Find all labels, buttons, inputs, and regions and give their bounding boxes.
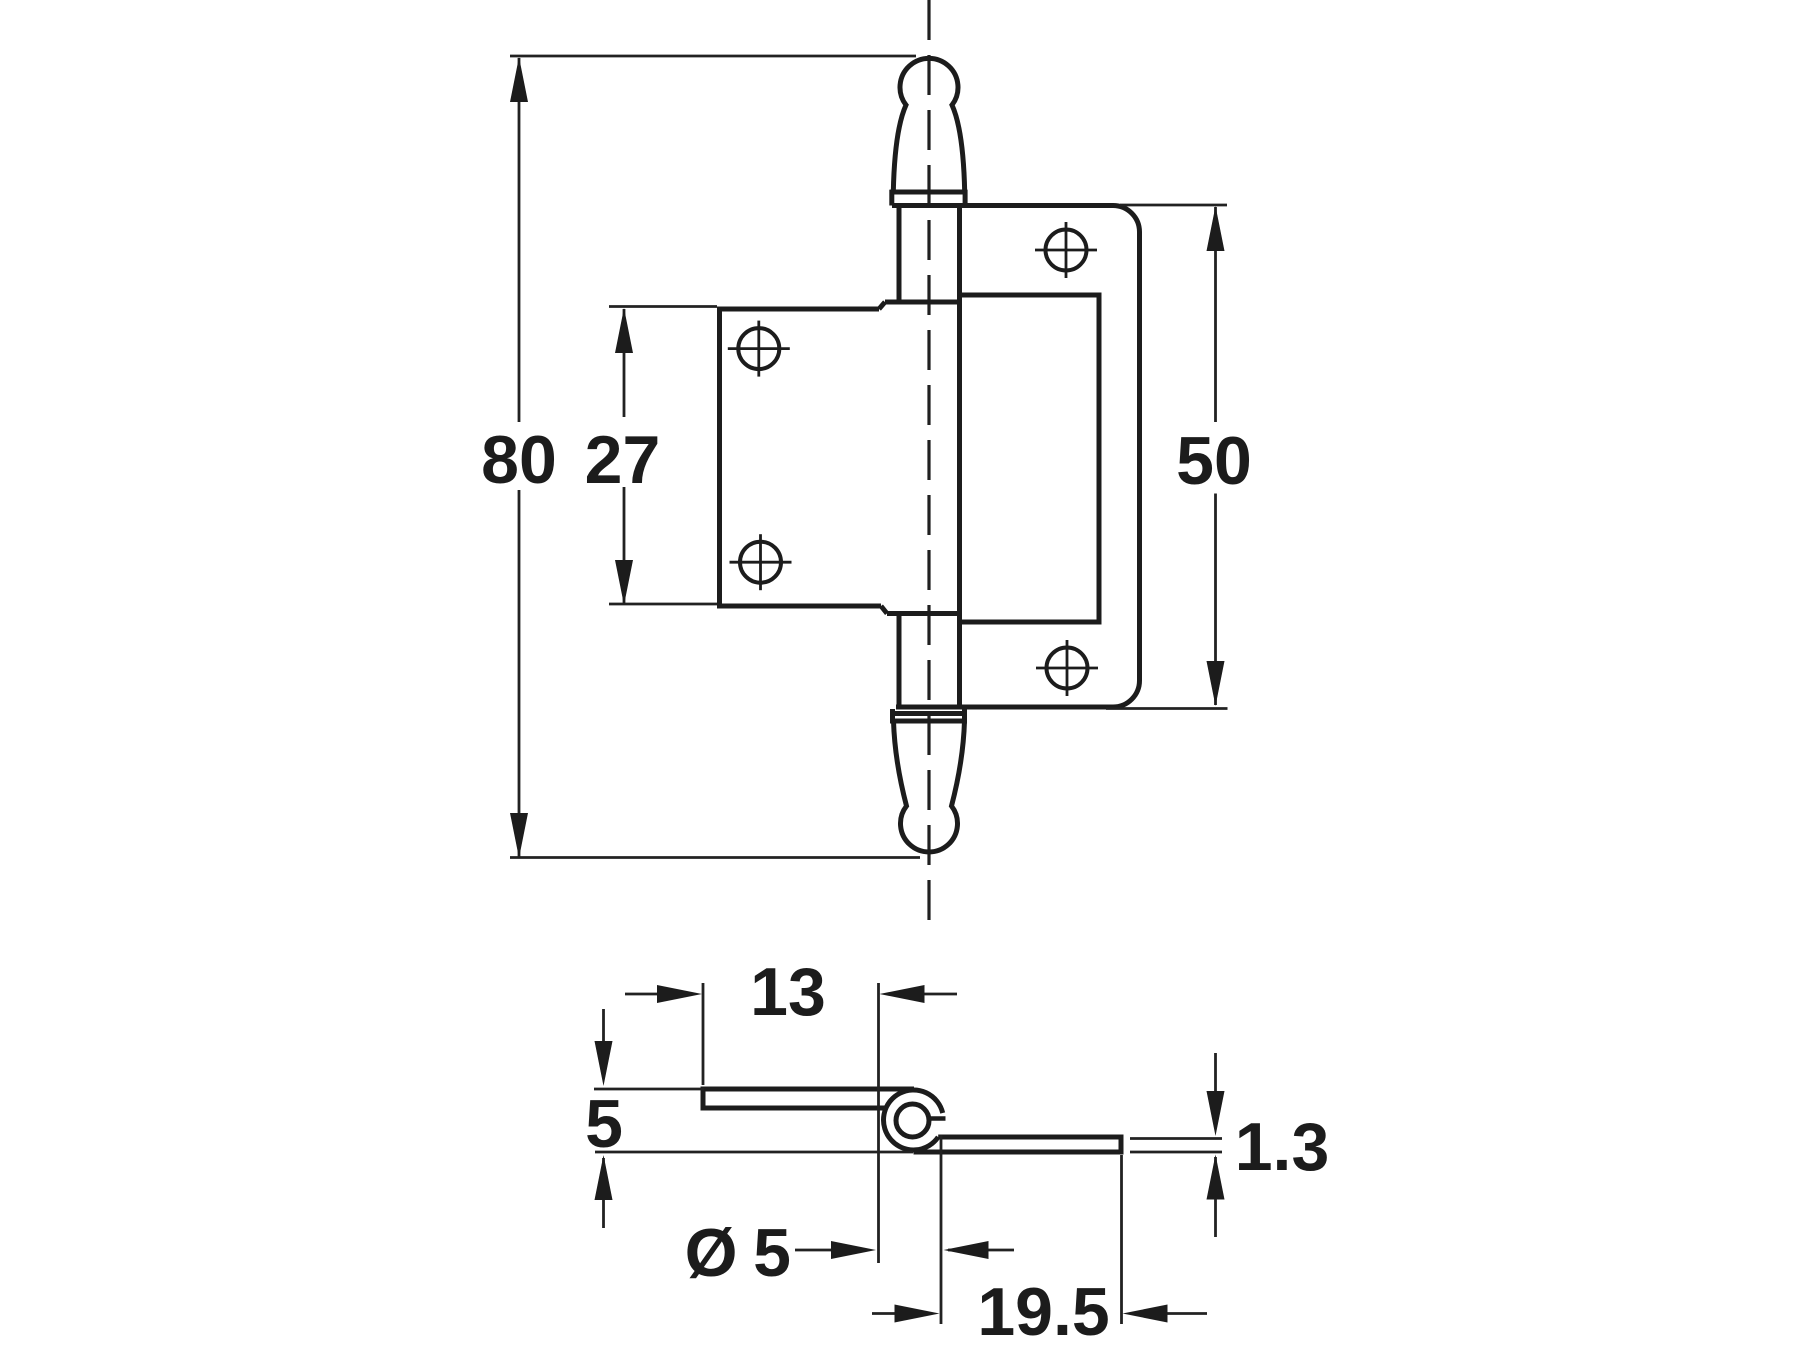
svg-text:Ø 5: Ø 5 (685, 1215, 790, 1291)
svg-text:80: 80 (481, 422, 557, 498)
svg-text:5: 5 (585, 1086, 623, 1162)
svg-text:27: 27 (585, 422, 661, 498)
svg-text:50: 50 (1176, 423, 1252, 499)
svg-text:1.3: 1.3 (1235, 1109, 1330, 1185)
svg-text:13: 13 (750, 954, 826, 1030)
svg-text:19.5: 19.5 (977, 1274, 1109, 1350)
